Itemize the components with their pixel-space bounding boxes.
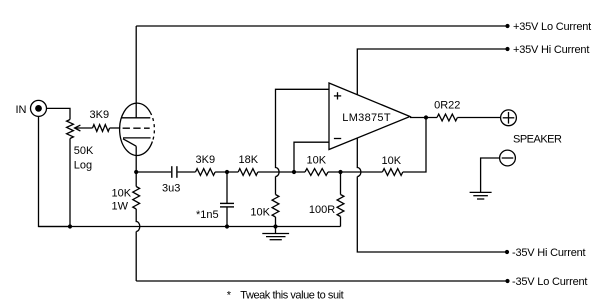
svg-text:3K9: 3K9 bbox=[196, 154, 216, 166]
resistor 10K (feedback, outer) bbox=[382, 169, 402, 176]
node A junction (feedback divider) bbox=[338, 170, 342, 174]
wire +35V Lo Current rail bbox=[136, 25, 507, 27]
svg-text:0R22: 0R22 bbox=[434, 100, 460, 112]
ground symbol (speaker return) bbox=[470, 192, 492, 199]
svg-text:50K: 50K bbox=[74, 145, 94, 157]
wire cap to 3K9 bbox=[178, 171, 196, 173]
svg-text:10K: 10K bbox=[250, 206, 270, 218]
wire 0R22 to speaker + terminal bbox=[457, 117, 500, 119]
node +35V Lo terminal bbox=[505, 24, 509, 28]
node ground junction on bus bbox=[273, 224, 277, 228]
wire ground bus (jack sleeve to 100R bottom) bbox=[39, 226, 341, 228]
node K cathode junction bbox=[134, 170, 138, 174]
svg-text:-35V Lo Current: -35V Lo Current bbox=[512, 276, 587, 288]
wire outer 10K up to output node bbox=[403, 118, 426, 173]
svg-text:1W: 1W bbox=[112, 201, 129, 213]
wire 100R leads bbox=[340, 172, 342, 227]
label 10K 1W bbox=[112, 188, 132, 213]
svg-text:*1n5: *1n5 bbox=[196, 209, 219, 221]
svg-text:10K: 10K bbox=[307, 155, 327, 167]
resistor 10K 1W (cathode) bbox=[133, 187, 140, 210]
wire op-amp + input, down with hop over feedback row bbox=[276, 89, 330, 194]
svg-text:3K9: 3K9 bbox=[90, 109, 110, 121]
wire 18K to inverting input node bbox=[258, 171, 294, 173]
wire node K to coupling cap bbox=[136, 171, 171, 173]
resistor 3K9 (grid stopper) bbox=[93, 125, 110, 132]
svg-text:*: * bbox=[227, 290, 232, 302]
op-amp - input marking bbox=[334, 138, 341, 140]
wire 1n5 top lead bbox=[226, 172, 228, 203]
svg-text:+35V Hi Current: +35V Hi Current bbox=[513, 44, 589, 56]
wire 10K bottom lead bbox=[275, 217, 277, 227]
node -35V Hi terminal bbox=[505, 250, 509, 254]
wire 3K9 to node B bbox=[215, 171, 238, 173]
ground symbol (signal ground) bbox=[262, 227, 289, 240]
svg-text:Tweak this value to suit: Tweak this value to suit bbox=[240, 290, 343, 302]
wire cathode resistor to -35V Lo rail with hop over ground bus bbox=[136, 209, 140, 281]
op-amp U1 LM3875T triangle bbox=[329, 83, 410, 150]
wire -35V Lo rail bbox=[136, 280, 507, 282]
wire cathode resistor top lead bbox=[135, 172, 137, 187]
svg-text:Log: Log bbox=[74, 159, 92, 171]
capacitor 3u3 (coupling) bbox=[172, 166, 177, 178]
node B junction (1n5 tap) bbox=[225, 170, 229, 174]
triode anode (plate) bbox=[121, 117, 150, 119]
triode grid (dashed) bbox=[123, 127, 150, 129]
speaker + terminal bbox=[501, 110, 517, 126]
resistor 3K9 (series input) bbox=[196, 169, 216, 176]
wire op-amp - input bbox=[294, 142, 329, 172]
resistor 10K (+input to ground) bbox=[272, 195, 279, 218]
capacitor 1n5 (shunt) bbox=[220, 203, 234, 207]
op-amp + input marking bbox=[334, 92, 341, 99]
label 50K Log bbox=[74, 145, 94, 171]
wire 3K9 to tube grid bbox=[110, 127, 121, 129]
node output junction bbox=[424, 115, 428, 119]
resistor 100R (node A to ground) bbox=[337, 195, 344, 217]
wire node A to outer 10K (passes under -V hop) bbox=[341, 171, 383, 173]
node +35V Hi terminal bbox=[505, 47, 509, 51]
triode V1 envelope (dashed right side) bbox=[150, 112, 154, 141]
triode V1 envelope (solid part) bbox=[120, 103, 153, 155]
wire pot bottom to ground bus bbox=[69, 139, 71, 227]
svg-text:LM3875T: LM3875T bbox=[342, 112, 391, 124]
svg-text:3u3: 3u3 bbox=[162, 183, 180, 195]
svg-text:100R: 100R bbox=[309, 204, 335, 216]
svg-text:SPEAKER: SPEAKER bbox=[513, 134, 562, 146]
svg-text:+35V Lo Current: +35V Lo Current bbox=[513, 21, 591, 33]
svg-text:IN: IN bbox=[16, 104, 27, 116]
speaker - terminal bbox=[500, 150, 516, 166]
node 1n5 on ground bus bbox=[225, 224, 229, 228]
wire inner 10K to node A bbox=[294, 171, 341, 173]
resistor 18K (series to inverting input) bbox=[238, 169, 258, 176]
wire op-amp -V pin down with hop, to -35V Hi rail bbox=[357, 138, 507, 252]
wire jack to volume pot top bbox=[47, 108, 70, 119]
node inverting input junction bbox=[292, 170, 296, 174]
potentiometer VR1 50K Log bbox=[67, 120, 74, 139]
wire anode to +35V Lo rail bbox=[135, 26, 137, 118]
wire speaker - terminal to ground bbox=[481, 158, 500, 192]
svg-text:18K: 18K bbox=[239, 154, 259, 166]
potentiometer wiper arrow bbox=[75, 125, 93, 131]
resistor 0R22 (output) bbox=[437, 114, 457, 121]
input jack J1 (RCA) bbox=[31, 100, 47, 116]
svg-text:10K: 10K bbox=[382, 155, 402, 167]
wire +35V Hi Current rail bbox=[357, 49, 507, 95]
wire jack sleeve down to ground bus bbox=[39, 117, 71, 227]
svg-text:-35V Hi Current: -35V Hi Current bbox=[512, 247, 586, 259]
resistor 10K (feedback, inner) bbox=[305, 169, 328, 176]
node pot bottom junction bbox=[68, 224, 72, 228]
svg-text:10K: 10K bbox=[112, 188, 132, 200]
wire op-amp output to 0R22 bbox=[410, 117, 437, 119]
wire cathode down to node K bbox=[135, 146, 137, 172]
node -35V Lo terminal bbox=[505, 279, 509, 283]
triode cathode bbox=[123, 138, 151, 146]
wire 1n5 bottom lead to ground bus bbox=[226, 208, 228, 227]
